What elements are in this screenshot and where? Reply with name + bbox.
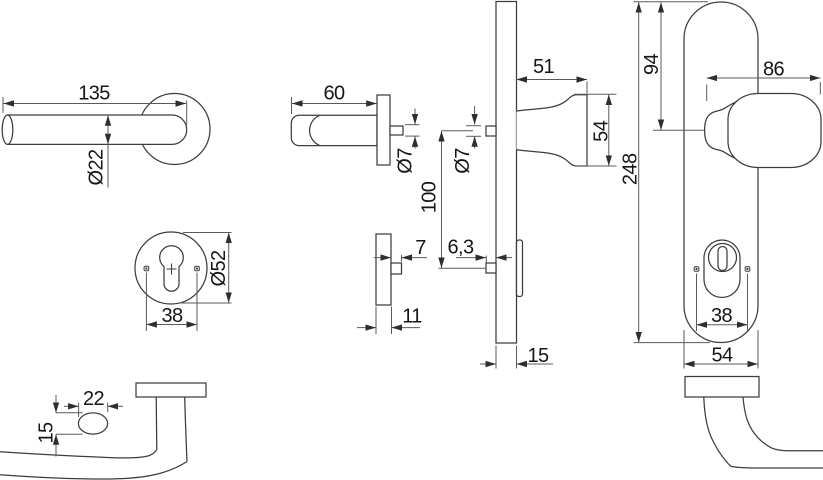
key slot (fig7) xyxy=(718,247,727,271)
dimension 22 right arrow xyxy=(108,405,123,407)
dimension 11 right arrow (fig5) xyxy=(392,327,421,329)
handle right and top contour (fig8) xyxy=(743,397,823,451)
dimension diameter 52 line xyxy=(228,233,230,303)
dimension 15 left extension (fig6) xyxy=(495,346,497,369)
spindle (fig4) xyxy=(390,126,403,135)
dimension 100 top connector xyxy=(442,130,474,132)
dimension 22 left arrow xyxy=(64,405,79,407)
svg-text:94: 94 xyxy=(641,54,663,76)
top shared extension line xyxy=(634,1,709,3)
dimension 51 right extension xyxy=(586,82,588,94)
dimension 11 left extension (fig5) xyxy=(375,307,377,335)
dimension diameter 52 bottom extension xyxy=(179,302,232,304)
right screw (fig2) xyxy=(195,266,200,271)
grip band top edge (fig3) xyxy=(0,450,157,458)
left screw (fig7) xyxy=(694,267,699,272)
handle left and bottom contour (fig8) xyxy=(704,397,823,468)
rosette circle (fig2) xyxy=(135,232,207,304)
dimension 54 right extension (fig7) xyxy=(757,330,759,369)
dimension 38 left extension (fig2) xyxy=(145,273,147,332)
dimension 54 line (fig7) xyxy=(684,363,758,365)
rosette side rectangle (fig3) xyxy=(136,383,206,397)
dimension 15 bottom extension xyxy=(56,433,83,435)
dimension 15 bottom arrow xyxy=(55,434,57,456)
keyhole cross mark xyxy=(167,264,177,275)
svg-text:7: 7 xyxy=(415,237,426,259)
dimension 15 right arrow (fig6) xyxy=(517,363,554,365)
svg-text:15: 15 xyxy=(35,422,57,444)
dimension 15 left arrow (fig6) xyxy=(480,363,496,365)
svg-text:248: 248 xyxy=(620,153,642,185)
cylinder escutcheon oval (fig7) xyxy=(704,240,740,298)
dimension diameter 7 bottom extension (fig6) xyxy=(466,135,481,137)
dimension 15 right extension (fig6) xyxy=(516,346,518,369)
dimension 15 top extension xyxy=(56,412,83,414)
dimension 94 line xyxy=(660,2,662,130)
dimension 248 bottom connector xyxy=(634,342,711,344)
svg-text:38: 38 xyxy=(161,305,183,327)
svg-text:54: 54 xyxy=(711,345,733,367)
svg-text:Ø7: Ø7 xyxy=(452,148,474,174)
dimension 86 left extension xyxy=(706,85,708,102)
dimension 100 bottom connector xyxy=(439,267,487,269)
rosette circle (fig1) xyxy=(139,94,210,165)
svg-text:Ø22: Ø22 xyxy=(85,149,107,185)
cylinder square (fig6) xyxy=(486,263,496,273)
tube left end ellipse (fig1) xyxy=(2,115,13,144)
dimension diameter 7 top arrow (fig6) xyxy=(474,106,476,125)
dimension diameter 7 bottom arrow (fig4) xyxy=(414,136,416,148)
dimension 11 left arrow (fig5) xyxy=(357,327,376,329)
svg-text:Ø7: Ø7 xyxy=(394,148,416,174)
dimension 15 top arrow xyxy=(55,395,57,413)
dimension 94 bottom connector xyxy=(653,129,704,131)
dimension 38 line (fig2) xyxy=(146,324,197,326)
grip band bottom edge (fig3) xyxy=(0,462,187,480)
svg-text:60: 60 xyxy=(323,83,345,105)
backplate front (fig7) xyxy=(684,2,758,343)
neck left edge (fig3) xyxy=(155,397,158,450)
dimension 135 right extension xyxy=(186,101,188,126)
rosette side plate (fig5) xyxy=(376,234,391,305)
neck right edge (fig3) xyxy=(185,397,187,462)
dimension 38 right extension (fig7) xyxy=(747,274,749,332)
dimension diameter 52 top extension xyxy=(183,232,232,234)
cylinder tab (fig5) xyxy=(391,263,402,274)
dimension diameter 7 bottom arrow (fig6) xyxy=(474,136,476,148)
rosette side plate (fig4) xyxy=(377,95,390,165)
dimension 248 line xyxy=(638,2,640,342)
grip band fill (fig3) xyxy=(0,450,187,479)
svg-text:51: 51 xyxy=(533,56,555,78)
cylinder circle (fig7) xyxy=(709,244,737,272)
cylinder housing behind plate (fig6) xyxy=(517,240,523,297)
knob neck (fig7) xyxy=(705,97,749,164)
dimension 60 line xyxy=(292,103,377,105)
dimension 54 top extension (fig6) xyxy=(574,93,617,95)
dimension 38 left extension (fig7) xyxy=(696,274,698,332)
dimension 6,3 tick xyxy=(485,256,487,263)
dimension 54 bottom extension (fig6) xyxy=(574,165,617,167)
svg-text:11: 11 xyxy=(402,306,422,328)
svg-text:135: 135 xyxy=(78,83,110,105)
spindle square (fig6) xyxy=(486,126,496,136)
knob side profile (fig6) xyxy=(517,95,588,166)
dimension 7 left arrow (fig5) xyxy=(374,257,391,259)
dimension 51 line xyxy=(517,79,588,81)
svg-text:22: 22 xyxy=(83,388,105,410)
dimension diameter 7 top extension (fig4) xyxy=(405,124,420,126)
knob face oval (fig7) xyxy=(728,94,821,168)
svg-text:54: 54 xyxy=(590,120,612,142)
dimension diameter 7 top extension (fig6) xyxy=(466,125,481,127)
lever tube (fig1) xyxy=(8,115,187,144)
dimension 135 line xyxy=(4,103,187,105)
dimension diameter 7 top arrow (fig4) xyxy=(414,109,416,125)
svg-text:Ø52: Ø52 xyxy=(208,250,230,286)
neck (fig3) xyxy=(156,397,187,462)
dimension 38 line (fig7) xyxy=(697,324,748,326)
dimension 22 left extension xyxy=(78,403,80,417)
svg-text:86: 86 xyxy=(763,59,785,81)
dimension 6,3 left arrow xyxy=(456,257,486,259)
dimension 60 left extension xyxy=(291,97,293,114)
dimension 86 right extension xyxy=(819,82,821,95)
dimension 22 right extension xyxy=(107,403,109,412)
euro profile keyhole (fig2) xyxy=(160,246,184,292)
dimension diameter 7 bottom extension (fig4) xyxy=(405,135,420,137)
dimension 38 right extension (fig2) xyxy=(196,273,198,332)
svg-text:100: 100 xyxy=(418,181,440,213)
backplate top view (fig8) xyxy=(685,377,759,398)
right screw (fig7) xyxy=(745,267,750,272)
dimension 6,3 right arrow xyxy=(496,257,512,259)
grip bend inner arc (fig4) xyxy=(310,115,320,145)
dimension 86 line xyxy=(707,77,821,79)
svg-text:6,3: 6,3 xyxy=(447,237,473,259)
dimension 11 right extension (fig5) xyxy=(391,307,393,335)
dimension 7 right arrow (fig5) xyxy=(402,257,428,259)
backplate side (fig6) xyxy=(496,2,517,344)
dimension 54 left extension (fig7) xyxy=(683,330,685,369)
dimension 54 line (fig6) xyxy=(608,95,610,166)
left screw (fig2) xyxy=(144,266,149,271)
lever tube side (fig4) xyxy=(291,115,377,145)
handle fill (fig8) xyxy=(704,397,823,468)
dimension 100 line xyxy=(441,131,443,268)
dimension diameter 22 tail line xyxy=(107,144,109,187)
svg-text:38: 38 xyxy=(711,305,733,327)
dimension 7 extension (fig5) xyxy=(401,255,403,262)
grip section ellipse (fig3) xyxy=(78,413,107,434)
svg-text:15: 15 xyxy=(527,345,549,367)
dimension diameter 22 arrow xyxy=(107,115,109,144)
dimension 135 left extension xyxy=(2,97,4,113)
